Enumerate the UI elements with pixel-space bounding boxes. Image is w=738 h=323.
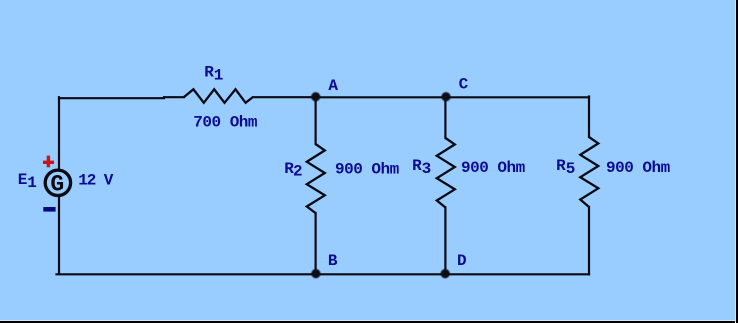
wire left vertical (corner through source to bottom corner) — [58, 97, 60, 272]
svg-text:R: R — [556, 157, 566, 175]
wire top-left segment (corner to step) — [59, 97, 164, 99]
svg-text:12 V: 12 V — [78, 172, 114, 190]
wire R1 to node A — [253, 96, 316, 98]
resistor R3 — [437, 138, 455, 208]
svg-text:2: 2 — [293, 162, 302, 180]
node C junction dot — [441, 92, 450, 101]
svg-text:A: A — [328, 77, 338, 95]
node A junction dot — [311, 92, 320, 101]
svg-text:B: B — [328, 252, 338, 270]
border highlight bottom — [0, 320, 738, 321]
wire node A to R2 — [315, 97, 317, 144]
svg-text:E: E — [18, 171, 27, 189]
svg-text:1: 1 — [214, 66, 223, 84]
svg-text:R: R — [412, 157, 422, 175]
svg-text:700 Ohm: 700 Ohm — [193, 114, 258, 132]
plus sign (red) of E1 — [43, 156, 54, 168]
resistor R2 — [307, 144, 325, 213]
wire right vertical upper (corner to R5) — [588, 97, 590, 138]
border black bottom — [0, 321, 738, 323]
resistor R5 — [580, 137, 598, 207]
node D junction dot — [441, 269, 450, 278]
wire right vertical lower (R5 to bottom corner) — [588, 207, 590, 274]
svg-text:900 Ohm: 900 Ohm — [606, 159, 671, 177]
resistor R1 — [184, 89, 253, 103]
wire R2 to node B — [315, 213, 317, 274]
node B junction dot — [311, 269, 320, 278]
svg-text:900 Ohm: 900 Ohm — [461, 159, 526, 177]
svg-text:C: C — [459, 75, 469, 93]
svg-text:D: D — [457, 252, 466, 270]
svg-text:R: R — [204, 63, 214, 81]
voltage source E1 circle — [45, 170, 70, 195]
wire node A to node C — [316, 96, 446, 98]
border black right — [736, 0, 738, 323]
border highlight right — [735, 0, 736, 323]
svg-text:3: 3 — [422, 160, 431, 178]
wire R3 to node D — [444, 208, 446, 275]
svg-text:5: 5 — [566, 160, 575, 178]
minus sign of E1 — [43, 207, 55, 212]
wire node C to R3 — [444, 97, 446, 138]
svg-text:1: 1 — [27, 174, 36, 192]
wire step to R1 — [164, 96, 184, 98]
wire bottom horizontal — [57, 273, 590, 275]
svg-text:G: G — [50, 172, 64, 198]
svg-text:900 Ohm: 900 Ohm — [335, 160, 400, 178]
wire node C to top-right corner — [446, 96, 589, 98]
